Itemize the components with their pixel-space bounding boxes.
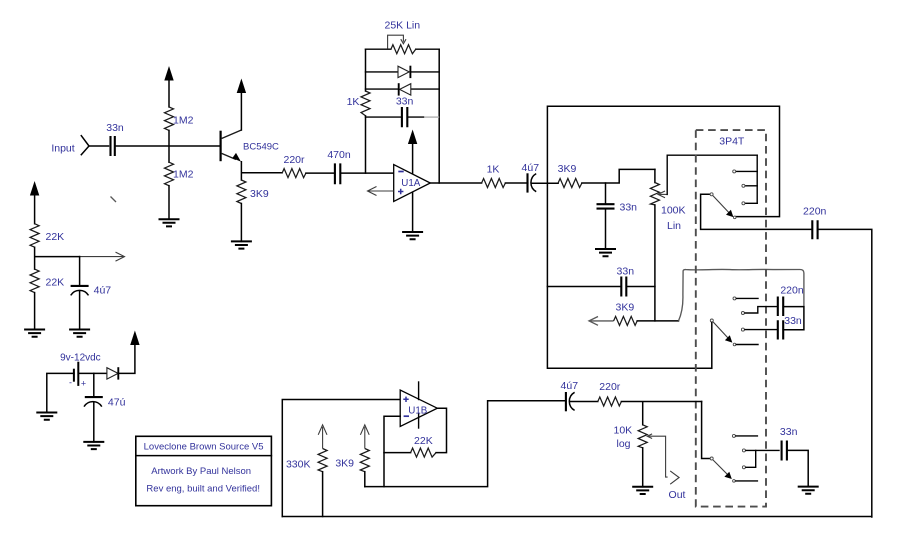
switch section 3 wiper arrow [713, 460, 732, 479]
resistor R 220r [282, 154, 306, 178]
wire 220n to right rail [818, 229, 872, 517]
ground [632, 487, 653, 494]
switch section 1 wiper arrow [713, 196, 733, 217]
svg-text:U1A: U1A [401, 178, 421, 189]
capacitor C 33n input [106, 122, 124, 156]
svg-text:33n: 33n [784, 315, 802, 327]
capacitor C 4u7 coupling [522, 162, 540, 193]
op-amp U1B [400, 382, 437, 428]
svg-text:220r: 220r [599, 381, 621, 393]
wire emitter node [241, 162, 282, 180]
diode D2 [366, 83, 440, 95]
wire [240, 204, 242, 242]
diode D3 [107, 367, 118, 379]
diode D1 [366, 66, 440, 78]
capacitor C 33n bottom [780, 426, 798, 461]
svg-text:33n: 33n [617, 266, 635, 278]
switch section 2 contacts [710, 297, 744, 346]
ground [159, 219, 180, 226]
power arrow V+ (1M2 top) [164, 66, 173, 107]
capacitor C 33n mid series [617, 266, 635, 297]
power arrow V+ (collector) [237, 79, 246, 94]
wire caps right join [783, 307, 804, 330]
wire 10K bottom [642, 448, 644, 487]
wire 33n mid row stub from box edge [547, 286, 621, 288]
wire [306, 172, 335, 174]
svg-text:3K9: 3K9 [250, 188, 269, 200]
potentiometer 25K Lin [366, 20, 440, 54]
ground [83, 442, 104, 449]
wire [168, 186, 170, 220]
switch 3P4T dashed outline [696, 130, 766, 507]
svg-text:1M2: 1M2 [173, 115, 194, 127]
resistor R 1M2 lower [165, 162, 194, 186]
stray mark [111, 197, 117, 203]
wire U1A output [430, 182, 481, 184]
svg-text:22K: 22K [46, 231, 65, 243]
svg-text:220n: 220n [780, 285, 804, 297]
svg-text:4ú7: 4ú7 [94, 284, 112, 296]
resistor R 3K9 with bias arrow [335, 425, 369, 487]
svg-text:470n: 470n [327, 149, 351, 161]
switch section 3 contacts [710, 434, 745, 482]
wire [626, 286, 655, 288]
switch section 1 contacts [710, 170, 745, 219]
op-amp U1A [394, 165, 431, 202]
capacitor C 470n [327, 149, 351, 184]
wire collector [240, 92, 242, 130]
svg-text:Artwork By Paul Nelson: Artwork By Paul Nelson [151, 466, 251, 477]
switch section 2 wires [712, 298, 778, 368]
svg-text:Lin: Lin [667, 220, 681, 232]
wire 100K bottom [654, 205, 656, 321]
svg-text:Out: Out [669, 489, 686, 501]
wire U1B output feedback [436, 408, 446, 452]
wire [605, 209, 607, 249]
svg-text:-: - [69, 378, 72, 388]
wire [637, 320, 678, 322]
resistor R 1K feedback [347, 91, 370, 116]
wire [89, 145, 109, 147]
switch section 3 wires [736, 436, 779, 481]
wire [570, 401, 598, 403]
ground [402, 232, 423, 239]
wire [168, 130, 170, 162]
capacitor C 220n top right [803, 206, 827, 240]
svg-text:1M2: 1M2 [173, 169, 194, 181]
ground [231, 241, 252, 248]
resistor R 3K9 emitter [237, 180, 269, 204]
input jack connector [81, 136, 89, 155]
wire bottom rail [282, 516, 872, 518]
svg-text:3K9: 3K9 [335, 458, 354, 470]
svg-text:22K: 22K [414, 435, 433, 447]
svg-text:10K: 10K [614, 424, 633, 436]
wire 33n tap [605, 183, 607, 204]
svg-text:33n: 33n [780, 426, 798, 438]
wire feedback right rail [438, 49, 440, 183]
svg-text:3P4T: 3P4T [719, 136, 745, 148]
svg-text:Rev eng, built and Verified!: Rev eng, built and Verified! [146, 484, 260, 495]
node Out arrow [669, 471, 686, 501]
svg-text:4ú7: 4ú7 [522, 162, 540, 174]
wire [115, 145, 220, 147]
svg-text:9v-12vdc: 9v-12vdc [60, 353, 101, 364]
node bias arrow right [80, 252, 125, 261]
wire bias node [35, 247, 80, 269]
power arrow V+ (22K divider) [30, 181, 39, 224]
wire [505, 182, 527, 184]
resistor R 1K output [482, 164, 506, 188]
ground [798, 487, 819, 494]
resistor R 1M2 upper [165, 107, 194, 130]
node bias arrow at 3K9 mid [589, 317, 614, 326]
svg-text:log: log [616, 438, 630, 450]
wire feedback left rail [365, 49, 367, 173]
wire to U1A inverting input [340, 172, 393, 174]
ground [595, 249, 616, 256]
svg-text:33n: 33n [106, 122, 124, 134]
svg-text:+: + [81, 379, 86, 389]
resistor R 22K lower [30, 269, 64, 293]
power arrow V+ (supply) [130, 331, 139, 346]
wire [532, 182, 559, 184]
svg-text:33n: 33n [396, 96, 414, 108]
capacitor C 33n shunt [597, 202, 638, 214]
svg-text:1K: 1K [487, 164, 500, 176]
capacitor C 33n feedback [366, 96, 440, 128]
resistor R 22K feedback [411, 435, 437, 457]
wire gray feedback to caps [679, 269, 804, 320]
capacitor C 4u7 output [561, 380, 579, 412]
wire U1B inverting input [384, 416, 400, 486]
svg-text:33n: 33n [620, 202, 638, 214]
svg-text:Loveclone Brown Source V5: Loveclone Brown Source V5 [144, 441, 264, 452]
svg-text:330K: 330K [286, 458, 311, 470]
resistor R 220r output [598, 381, 622, 406]
power arrow V+ (U1A) [408, 130, 417, 175]
svg-text:220r: 220r [283, 154, 305, 166]
transistor Q1 BC549C [221, 130, 279, 162]
wire to switch section 3 pole [702, 402, 710, 459]
potentiometer 100K Lin [650, 155, 757, 232]
ground [36, 413, 57, 420]
svg-text:Input: Input [51, 143, 74, 155]
wire 33n to ground [787, 450, 808, 486]
resistor R 330K with bias arrow [286, 425, 327, 517]
svg-text:47ú: 47ú [108, 396, 126, 408]
ground [24, 330, 45, 337]
resistor R 22K upper [30, 224, 64, 248]
wire [34, 293, 36, 330]
wire 3K9 bottom to coupling rail [365, 401, 566, 487]
wire U1B input rail [282, 400, 400, 517]
svg-text:4ú7: 4ú7 [561, 380, 579, 392]
switch section 2 wiper arrow [713, 322, 732, 343]
svg-text:3K9: 3K9 [616, 302, 635, 314]
svg-text:25K Lin: 25K Lin [384, 20, 420, 32]
svg-text:220n: 220n [803, 206, 827, 218]
battery 9v-12vdc [60, 353, 101, 389]
svg-text:1K: 1K [347, 96, 360, 108]
capacitor C 47u [84, 373, 126, 442]
ground [69, 330, 90, 337]
svg-text:U1B: U1B [408, 405, 428, 416]
wire [621, 402, 701, 425]
capacitor C 4u7 bias [71, 257, 112, 330]
title box [136, 436, 272, 505]
wire box loop (mid pole to top throw 4) [547, 106, 779, 368]
wire battery plus [78, 372, 107, 374]
svg-text:3K9: 3K9 [558, 163, 577, 175]
wire [118, 344, 134, 373]
wire [582, 169, 655, 183]
switch section 1 wires [701, 155, 813, 229]
svg-text:22K: 22K [46, 277, 65, 289]
capacitor C 33n mid right [778, 315, 802, 340]
resistor R 3K9 filter [558, 163, 582, 188]
wire U1A ground pin [412, 192, 414, 232]
svg-text:100K: 100K [661, 204, 686, 216]
node Input [51, 143, 74, 155]
resistor R 3K9 mid [614, 302, 638, 326]
wire battery minus to ground [47, 373, 74, 412]
wire 22K row left [384, 452, 411, 454]
capacitor C 220n mid [778, 285, 804, 316]
potentiometer 10K log [614, 424, 668, 477]
svg-text:BC549C: BC549C [243, 142, 279, 153]
node bias arrow at U1A non-inverting input [368, 187, 394, 196]
